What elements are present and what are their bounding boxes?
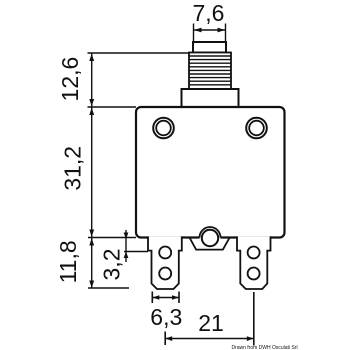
reset boss circle	[202, 230, 218, 246]
reset boss gap eraser	[200, 235, 221, 240]
threaded neck	[189, 53, 231, 90]
svg-text:7,6: 7,6	[193, 0, 225, 26]
dimension 21 left tick	[164, 332, 166, 346]
mounting pedestal	[182, 89, 239, 107]
dimension 3,2 line with arrows	[124, 230, 129, 262]
dimension 12,6 text	[57, 57, 83, 102]
dimension 7,6 line with arrows	[194, 28, 225, 33]
dimension 6,3 text	[150, 304, 182, 330]
dimension 21 text	[198, 310, 224, 336]
dimension 7,6 text	[193, 0, 225, 26]
dimension 31,2 bottom extension line	[88, 237, 136, 239]
credit note text	[231, 345, 297, 350]
svg-text:21: 21	[198, 310, 224, 336]
dimension 11,8 text	[55, 240, 81, 283]
dimension 6,3 tick marks	[152, 292, 179, 304]
dimension 31,2 text	[60, 146, 86, 191]
reset boss trapezoid	[190, 238, 230, 250]
dimension 6,3 line with arrows	[152, 295, 179, 300]
dimension 3,2 extension line	[124, 251, 148, 253]
breaker body	[136, 107, 285, 238]
rivet left	[153, 118, 174, 139]
svg-text:12,6: 12,6	[57, 57, 83, 102]
dimension 3,2 text	[99, 249, 125, 281]
svg-text:11,8: 11,8	[55, 240, 81, 283]
terminal tab right	[237, 236, 271, 289]
svg-text:3,2: 3,2	[99, 249, 125, 281]
svg-text:Drawn from DWH Osculati Srl: Drawn from DWH Osculati Srl	[231, 345, 297, 350]
svg-text:31,2: 31,2	[60, 146, 86, 191]
svg-text:6,3: 6,3	[150, 304, 182, 330]
terminal tab left	[148, 236, 182, 289]
dimension 21 line with arrows	[165, 336, 254, 341]
dimension 12,6 line with arrows	[89, 54, 94, 107]
dimension 12,6 extension lines	[88, 53, 190, 107]
dimension 21 right extension line	[253, 292, 255, 346]
dimension 11,8 bottom extension line	[88, 287, 129, 289]
push button cap	[193, 42, 226, 53]
rivet right	[246, 118, 267, 139]
reset boss outer arc	[200, 227, 221, 238]
dimension 11,8 line with arrows	[89, 238, 94, 288]
dimension 31,2 line with arrows	[89, 108, 94, 238]
dimension 7,6 extension lines	[194, 24, 226, 42]
